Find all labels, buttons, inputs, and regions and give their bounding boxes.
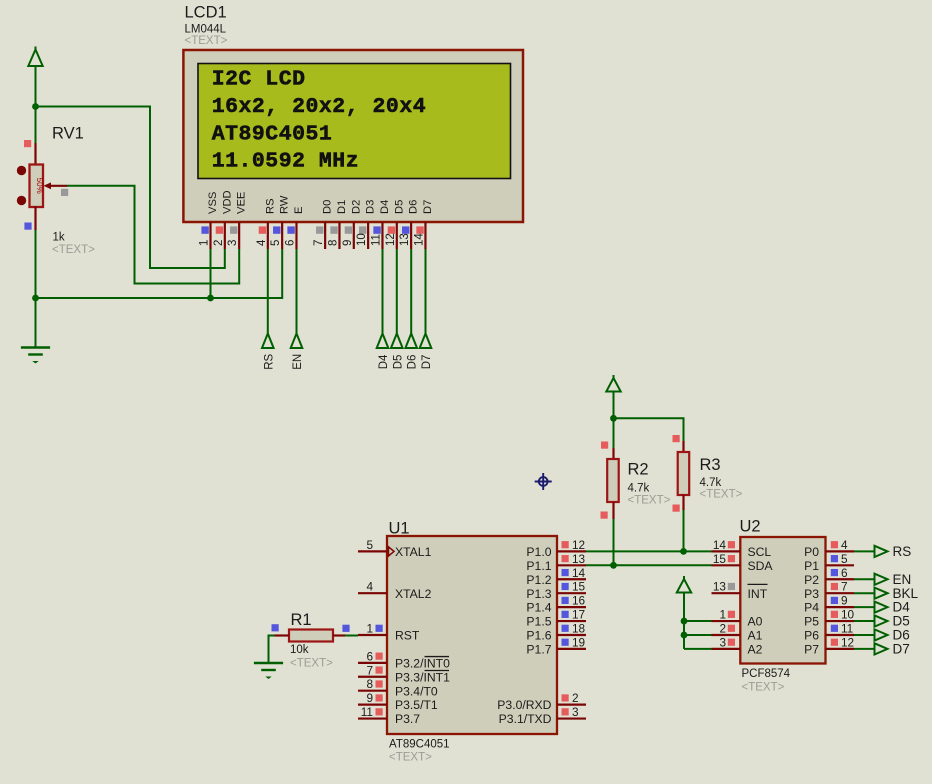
- U2 pin 9 (P4) stub: [826, 606, 855, 608]
- U2 pin 7 state square: [831, 583, 838, 590]
- svg-text:6: 6: [366, 649, 373, 663]
- svg-text:P5: P5: [804, 615, 819, 629]
- U1 pin 14 state square: [562, 569, 569, 576]
- terminal D7: [420, 334, 432, 349]
- svg-text:5: 5: [841, 552, 848, 566]
- svg-text:RW: RW: [279, 195, 291, 214]
- svg-text:SCL: SCL: [748, 545, 772, 559]
- svg-text:P3.2/INT0: P3.2/INT0: [395, 656, 450, 670]
- LCD pin 11 state square: [373, 226, 380, 233]
- U2 pin 12 (P7) stub: [826, 648, 855, 650]
- U1 pin 11 state square: [376, 708, 383, 715]
- svg-text:D6: D6: [407, 355, 419, 370]
- U2 pin 11 (P6) stub: [826, 634, 855, 636]
- node A junction dot: [32, 103, 39, 110]
- junction dot VSS: [207, 295, 214, 302]
- U1 pin 6 state square: [376, 653, 383, 660]
- LCD pin 4 state square: [259, 226, 266, 233]
- U1 pin 15 state square: [562, 583, 569, 590]
- LCD pin 3 (VEE) stub: [238, 222, 240, 249]
- svg-text:9: 9: [841, 594, 848, 608]
- svg-text:<TEXT>: <TEXT>: [742, 682, 785, 694]
- U1 pin 13 (P1.1) stub: [557, 564, 586, 566]
- svg-text:13: 13: [572, 552, 586, 566]
- svg-text:A2: A2: [748, 643, 763, 657]
- svg-text:P1: P1: [804, 559, 819, 573]
- svg-text:6: 6: [841, 566, 848, 580]
- svg-text:2: 2: [719, 621, 726, 635]
- svg-text:RST: RST: [395, 629, 420, 643]
- R3 state square top: [673, 435, 680, 442]
- LCD pin 5 (RW) stub: [281, 222, 283, 249]
- svg-text:PCF8574: PCF8574: [742, 668, 791, 680]
- svg-text:<TEXT>: <TEXT>: [628, 495, 671, 507]
- R1 left lead: [275, 634, 290, 636]
- terminal EN: [875, 574, 888, 585]
- svg-text:10: 10: [356, 233, 368, 246]
- terminal D7: [875, 643, 888, 654]
- U2 pin 5 state square: [831, 555, 838, 562]
- svg-text:P6: P6: [804, 629, 819, 643]
- U2 pin 3 (A2) stub: [712, 648, 741, 650]
- U1 pin 13 state square: [562, 555, 569, 562]
- svg-text:D2: D2: [350, 200, 362, 214]
- op-amp U1 body AT89C4051: [387, 536, 557, 734]
- svg-text:D7: D7: [421, 355, 433, 370]
- U2 pin 4 (P0) stub: [826, 550, 855, 552]
- svg-text:8: 8: [327, 240, 339, 246]
- U1 pin 1 state square: [376, 625, 383, 632]
- svg-text:BKL: BKL: [893, 586, 919, 601]
- R3 state square bottom: [673, 505, 680, 512]
- U1 pin 19 (P1.7) stub: [557, 648, 586, 650]
- U1 pin 5 (XTAL1) stub: [358, 550, 387, 552]
- U1 pin 1 (RST) stub: [358, 634, 387, 636]
- U2 pin 2 (A1) stub: [712, 634, 741, 636]
- svg-text:D5: D5: [392, 355, 404, 370]
- svg-text:R1: R1: [291, 611, 312, 629]
- LCD pin 11 (D4) stub: [381, 222, 383, 249]
- wire node A to VDD pin (LCD pin2): [36, 107, 225, 269]
- wire rail to A0: [684, 620, 712, 622]
- power terminal VCC (top-left): [28, 47, 42, 67]
- LCD pin 10 state square: [359, 226, 366, 233]
- wire R1 right to RST: [345, 635, 358, 637]
- svg-text:D5: D5: [393, 200, 405, 214]
- svg-text:VEE: VEE: [236, 192, 248, 214]
- svg-text:P0: P0: [804, 545, 819, 559]
- RV1 wiper arrow: [44, 182, 52, 189]
- svg-text:I2C LCD: I2C LCD: [212, 68, 306, 92]
- potentiometer RV1 body: [30, 165, 44, 208]
- svg-text:SDA: SDA: [748, 559, 774, 573]
- wire down to ground symbol: [35, 298, 37, 348]
- U1 pin 17 (P1.5) stub: [557, 620, 586, 622]
- U1 pin 8 (P3.4/T0) stub: [358, 690, 387, 692]
- svg-text:D4: D4: [378, 354, 390, 369]
- svg-text:P1.4: P1.4: [526, 601, 551, 615]
- U2 pin 7 (P3) stub: [826, 592, 855, 594]
- wire SCL net P1.0 to U2 SCL: [586, 550, 712, 552]
- LCD pin 5 state square: [273, 226, 280, 233]
- LCD pin 12 state square: [388, 226, 395, 233]
- svg-text:RS: RS: [264, 198, 276, 214]
- svg-text:17: 17: [572, 608, 585, 622]
- svg-text:9: 9: [342, 240, 354, 246]
- svg-text:P3: P3: [804, 587, 819, 601]
- U2 pin 4 state square: [831, 541, 838, 548]
- svg-text:12: 12: [385, 233, 397, 246]
- LCD pin 9 (D2) stub: [353, 222, 355, 249]
- wire node B to R3 top: [614, 418, 684, 441]
- svg-text:EN: EN: [292, 354, 304, 370]
- U2 pin 11 state square: [831, 625, 838, 632]
- U2 pin 14 state square: [728, 541, 735, 548]
- R3 bottom pin: [682, 495, 684, 510]
- LCD pin 6 state square: [287, 226, 294, 233]
- wire RV1 wiper to VEE (LCD pin3): [67, 186, 239, 284]
- svg-text:P4: P4: [804, 601, 819, 615]
- svg-text:D7: D7: [893, 642, 910, 657]
- svg-text:3: 3: [719, 635, 726, 649]
- wire LCD E pin6 to EN terminal: [296, 249, 298, 334]
- LCD pin 14 state square: [416, 226, 423, 233]
- ground rail junction at RV1: [32, 295, 39, 302]
- wire LCD RS pin4 to RS terminal: [267, 249, 269, 334]
- terminal D4: [377, 334, 389, 349]
- terminal D5: [391, 334, 403, 349]
- LCD pin 13 state square: [402, 226, 409, 233]
- wire rail to A2: [684, 648, 712, 650]
- svg-text:13: 13: [399, 233, 411, 246]
- svg-text:U1: U1: [389, 520, 410, 538]
- wire P6 to terminal D6: [854, 634, 875, 636]
- wire LCD D5 to D5 terminal: [396, 249, 398, 334]
- svg-text:12: 12: [841, 635, 854, 649]
- LCD pin 12 (D5) stub: [396, 222, 398, 249]
- U1 pin 15 (P1.3) stub: [557, 592, 586, 594]
- LCD pin 1 (VSS) stub: [209, 222, 211, 249]
- U1 pin 11 (P3.7) stub: [358, 717, 387, 719]
- svg-text:E: E: [293, 207, 305, 214]
- R2 bottom pin: [612, 502, 614, 519]
- RV1 terminal circle top: [17, 166, 26, 175]
- svg-text:3: 3: [572, 705, 579, 719]
- svg-text:RV1: RV1: [52, 125, 84, 143]
- wire node B to R2 top: [613, 418, 615, 448]
- RV1 state square bottom: [24, 223, 31, 230]
- svg-text:R3: R3: [700, 456, 721, 474]
- wire P5 to terminal D5: [854, 620, 875, 622]
- U1 pin 8 state square: [376, 680, 383, 687]
- svg-text:11: 11: [841, 621, 853, 635]
- LCD pin 14 (D7) stub: [424, 222, 426, 249]
- svg-text:50%: 50%: [35, 178, 44, 194]
- U2 pin 15 state square: [728, 555, 735, 562]
- svg-text:1: 1: [366, 621, 373, 635]
- U1 pin 2 (P3.0/RXD) stub: [557, 704, 586, 706]
- LCD pin 13 (D6) stub: [410, 222, 412, 249]
- svg-text:P3.5/T1: P3.5/T1: [395, 698, 438, 712]
- svg-text:P1.5: P1.5: [526, 615, 551, 629]
- terminal RS: [875, 546, 888, 557]
- svg-text:INT: INT: [748, 587, 768, 601]
- svg-text:<TEXT>: <TEXT>: [52, 244, 95, 256]
- svg-text:10k: 10k: [290, 644, 309, 656]
- LCD pin 9 state square: [345, 226, 352, 233]
- wire power to node A: [35, 66, 37, 107]
- U1 pin 14 (P1.2) stub: [557, 578, 586, 580]
- origin crosshair marker: [535, 473, 552, 490]
- U2 pin 3 state square: [728, 639, 735, 646]
- U2 pin 1 (A0) stub: [712, 620, 741, 622]
- R1 state square left: [272, 624, 279, 631]
- svg-text:1k: 1k: [53, 232, 65, 244]
- node B junction dot: [610, 415, 617, 422]
- svg-text:P2: P2: [804, 573, 819, 587]
- svg-text:<TEXT>: <TEXT>: [290, 658, 333, 670]
- wire LCD D4 to D4 terminal: [382, 249, 384, 334]
- op-amp U2 body PCF8574: [740, 537, 825, 664]
- svg-text:P1.1: P1.1: [526, 559, 551, 573]
- U1 pin 2 state square: [562, 694, 569, 701]
- U1 pin 18 (P1.6) stub: [557, 634, 586, 636]
- svg-text:LCD1: LCD1: [185, 3, 227, 21]
- U2 pin 15 (SDA) stub: [712, 564, 741, 566]
- svg-text:11.0592 MHz: 11.0592 MHz: [212, 150, 359, 174]
- U2 pin 10 (P5) stub: [826, 620, 855, 622]
- U2 pin 13 state square: [728, 583, 735, 590]
- U1 pin 3 (P3.1/TXD) stub: [557, 717, 586, 719]
- svg-text:P3.7: P3.7: [395, 712, 420, 726]
- svg-text:14: 14: [572, 566, 586, 580]
- U1 pin 7 (P3.3/INT1) stub: [358, 676, 387, 678]
- terminal BKL: [875, 588, 888, 599]
- wire R1 left to ground: [269, 636, 275, 663]
- svg-text:P1.6: P1.6: [526, 629, 551, 643]
- wire P2 to terminal EN: [854, 578, 875, 580]
- RV1 state square wiper: [61, 189, 68, 196]
- wire P4 to terminal D4: [854, 606, 875, 608]
- svg-text:8: 8: [366, 677, 373, 691]
- LCD pin 4 (RS) stub: [267, 222, 269, 249]
- svg-text:D6: D6: [408, 200, 420, 214]
- U1 pin 9 (P3.5/T1) stub: [358, 704, 387, 706]
- svg-text:D7: D7: [422, 200, 434, 214]
- RV1 top pin: [34, 143, 36, 165]
- svg-text:14: 14: [413, 233, 425, 246]
- svg-text:D5: D5: [893, 614, 910, 629]
- power terminal VCC above R2: [606, 375, 620, 392]
- LCD pin 8 (D1) stub: [338, 222, 340, 249]
- U2 pin 14 (SCL) stub: [712, 550, 741, 552]
- U2 pin 1 state square: [728, 611, 735, 618]
- LCD pin 2 state square: [216, 226, 223, 233]
- terminal EN: [291, 334, 303, 349]
- svg-text:4: 4: [841, 538, 848, 552]
- U2 pin 2 state square: [728, 625, 735, 632]
- LCD pin 7 state square: [316, 226, 323, 233]
- RV1 state square top: [24, 140, 31, 147]
- wire VCC down A0-A2 rail: [683, 593, 685, 649]
- svg-text:13: 13: [713, 580, 727, 594]
- svg-text:12: 12: [572, 538, 585, 552]
- LCD pin 10 (D3) stub: [367, 222, 369, 249]
- svg-text:4.7k: 4.7k: [628, 483, 650, 495]
- svg-text:4: 4: [256, 239, 268, 246]
- terminal RS: [262, 334, 274, 349]
- U1 pin 17 state square: [562, 611, 569, 618]
- R1 right lead: [333, 634, 345, 636]
- RV1 bottom pin: [34, 207, 36, 231]
- svg-text:<TEXT>: <TEXT>: [185, 35, 228, 47]
- junction dot A1: [681, 632, 688, 639]
- junction dot A0: [681, 618, 688, 625]
- U2 pin 5 (P1) stub: [826, 564, 855, 566]
- svg-text:EN: EN: [893, 572, 912, 587]
- resistor R2 body: [607, 459, 619, 502]
- R2 state square top: [601, 442, 608, 449]
- wire P0 to terminal RS: [854, 550, 875, 552]
- wire R2 bottom to SDA net: [613, 519, 615, 565]
- LCD screen: [198, 64, 511, 179]
- terminal D5: [875, 615, 888, 626]
- R2 top pin: [612, 448, 614, 459]
- svg-text:19: 19: [572, 635, 585, 649]
- svg-text:P1.7: P1.7: [526, 643, 551, 657]
- svg-text:1: 1: [199, 240, 211, 246]
- svg-text:11: 11: [361, 705, 373, 719]
- svg-text:R2: R2: [628, 461, 649, 479]
- svg-text:P1.0: P1.0: [526, 545, 551, 559]
- svg-text:P7: P7: [804, 643, 819, 657]
- U1 pin 19 state square: [562, 639, 569, 646]
- svg-text:4: 4: [366, 580, 373, 594]
- R3 top pin: [682, 441, 684, 452]
- svg-text:D3: D3: [365, 200, 377, 214]
- svg-text:5: 5: [270, 240, 282, 246]
- terminal D4: [875, 602, 888, 613]
- svg-text:P3.4/T0: P3.4/T0: [395, 684, 438, 698]
- svg-text:1: 1: [719, 608, 726, 622]
- svg-text:7: 7: [313, 240, 325, 246]
- svg-text:VDD: VDD: [221, 190, 233, 214]
- LCD pin 1 state square: [201, 226, 208, 233]
- LCD pin 7 (D0) stub: [324, 222, 326, 249]
- wire VSS pin1 to ground rail: [210, 249, 212, 298]
- ground rail wire to RW (LCD pin5): [36, 249, 283, 298]
- svg-text:D1: D1: [336, 200, 348, 214]
- R1 state square right: [342, 625, 349, 632]
- svg-text:LM044L: LM044L: [185, 24, 227, 36]
- svg-text:AT89C4051: AT89C4051: [389, 739, 450, 751]
- U1 pin 18 state square: [562, 625, 569, 632]
- svg-text:4.7k: 4.7k: [700, 477, 722, 489]
- svg-text:XTAL1: XTAL1: [395, 545, 432, 559]
- U1 pin 7 state square: [376, 666, 383, 673]
- wire LCD D6 to D6 terminal: [410, 249, 412, 334]
- wire P7 to terminal D7: [854, 648, 875, 650]
- ground symbol left: [21, 346, 50, 349]
- resistor R3 body: [678, 452, 690, 495]
- svg-text:D0: D0: [322, 200, 334, 214]
- LCD pin 6 (E) stub: [295, 222, 297, 249]
- wire LCD D7 to D7 terminal: [425, 249, 427, 334]
- svg-text:16: 16: [572, 594, 586, 608]
- svg-text:2: 2: [213, 240, 225, 246]
- svg-text:VSS: VSS: [207, 192, 219, 214]
- svg-text:D4: D4: [379, 200, 391, 214]
- U2 pin 12 state square: [831, 639, 838, 646]
- LCD LM044L body: [183, 50, 523, 222]
- svg-text:15: 15: [572, 580, 586, 594]
- wire SDA net P1.1 to U2 SDA: [586, 564, 712, 566]
- wire R3 bottom to SCL net: [683, 510, 685, 551]
- svg-text:18: 18: [572, 621, 586, 635]
- svg-text:P3.1/TXD: P3.1/TXD: [499, 712, 552, 726]
- svg-text:D4: D4: [893, 600, 911, 615]
- terminal D6: [405, 334, 417, 349]
- svg-text:5: 5: [366, 538, 373, 552]
- LCD pin 3 state square: [230, 226, 237, 233]
- wire rail to A1: [684, 634, 712, 636]
- U1 pin 3 state square: [562, 708, 569, 715]
- U1 pin 16 (P1.4) stub: [557, 606, 586, 608]
- U2 pin 9 state square: [831, 597, 838, 604]
- wire P3 to terminal BKL: [854, 592, 875, 594]
- junction dot R3-SCL: [680, 548, 687, 555]
- svg-text:AT89C4051: AT89C4051: [212, 123, 333, 147]
- R2 state square bottom: [601, 512, 608, 519]
- U1 pin 12 state square: [562, 541, 569, 548]
- resistor R1 body: [289, 630, 333, 642]
- svg-text:P3.0/RXD: P3.0/RXD: [497, 698, 551, 712]
- svg-text:3: 3: [227, 240, 239, 246]
- svg-text:9: 9: [366, 691, 373, 705]
- svg-text:11: 11: [370, 234, 382, 246]
- svg-text:<TEXT>: <TEXT>: [700, 489, 743, 501]
- svg-text:U2: U2: [740, 518, 761, 536]
- svg-text:<TEXT>: <TEXT>: [389, 752, 432, 764]
- svg-text:15: 15: [713, 552, 727, 566]
- svg-text:6: 6: [284, 240, 296, 246]
- svg-text:14: 14: [713, 538, 727, 552]
- svg-text:A0: A0: [748, 615, 763, 629]
- U2 pin 13 (INT) stub: [712, 592, 741, 594]
- svg-text:P1.2: P1.2: [526, 573, 551, 587]
- U1 pin 4 (XTAL2) stub: [358, 592, 387, 594]
- U2 pin 6 (P2) stub: [826, 578, 855, 580]
- svg-text:2: 2: [572, 691, 579, 705]
- U1 pin 16 state square: [562, 597, 569, 604]
- U2 pin 6 state square: [831, 569, 838, 576]
- wire RV1 bottom to ground rail: [35, 230, 37, 298]
- U1 pin 9 state square: [376, 694, 383, 701]
- LCD pin 2 (VDD) stub: [224, 222, 226, 249]
- junction dot R2-SDA: [610, 562, 617, 569]
- svg-text:P1.3: P1.3: [526, 587, 551, 601]
- terminal D6: [875, 629, 888, 640]
- svg-text:10: 10: [841, 608, 855, 622]
- svg-text:RS: RS: [263, 353, 275, 369]
- svg-text:7: 7: [841, 580, 848, 594]
- wire VCC to node B: [613, 392, 615, 419]
- U2 pin 10 state square: [831, 611, 838, 618]
- wire node A down to RV1 top: [35, 107, 37, 144]
- RV1 terminal circle bottom: [17, 196, 26, 205]
- svg-text:RS: RS: [893, 544, 912, 559]
- svg-text:16x2, 20x2, 20x4: 16x2, 20x2, 20x4: [212, 95, 426, 119]
